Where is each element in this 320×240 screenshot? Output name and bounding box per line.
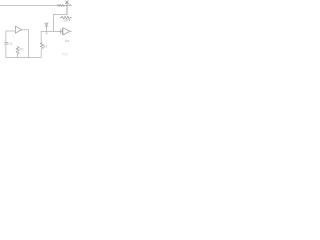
svg-text:C1: C1 xyxy=(8,42,12,46)
svg-text:100k: 100k xyxy=(63,19,71,23)
svg-text:R1: R1 xyxy=(20,47,24,51)
svg-text:R2: R2 xyxy=(43,45,47,49)
svg-text:f=1k: f=1k xyxy=(62,53,69,57)
svg-text:Ua: Ua xyxy=(65,39,69,43)
